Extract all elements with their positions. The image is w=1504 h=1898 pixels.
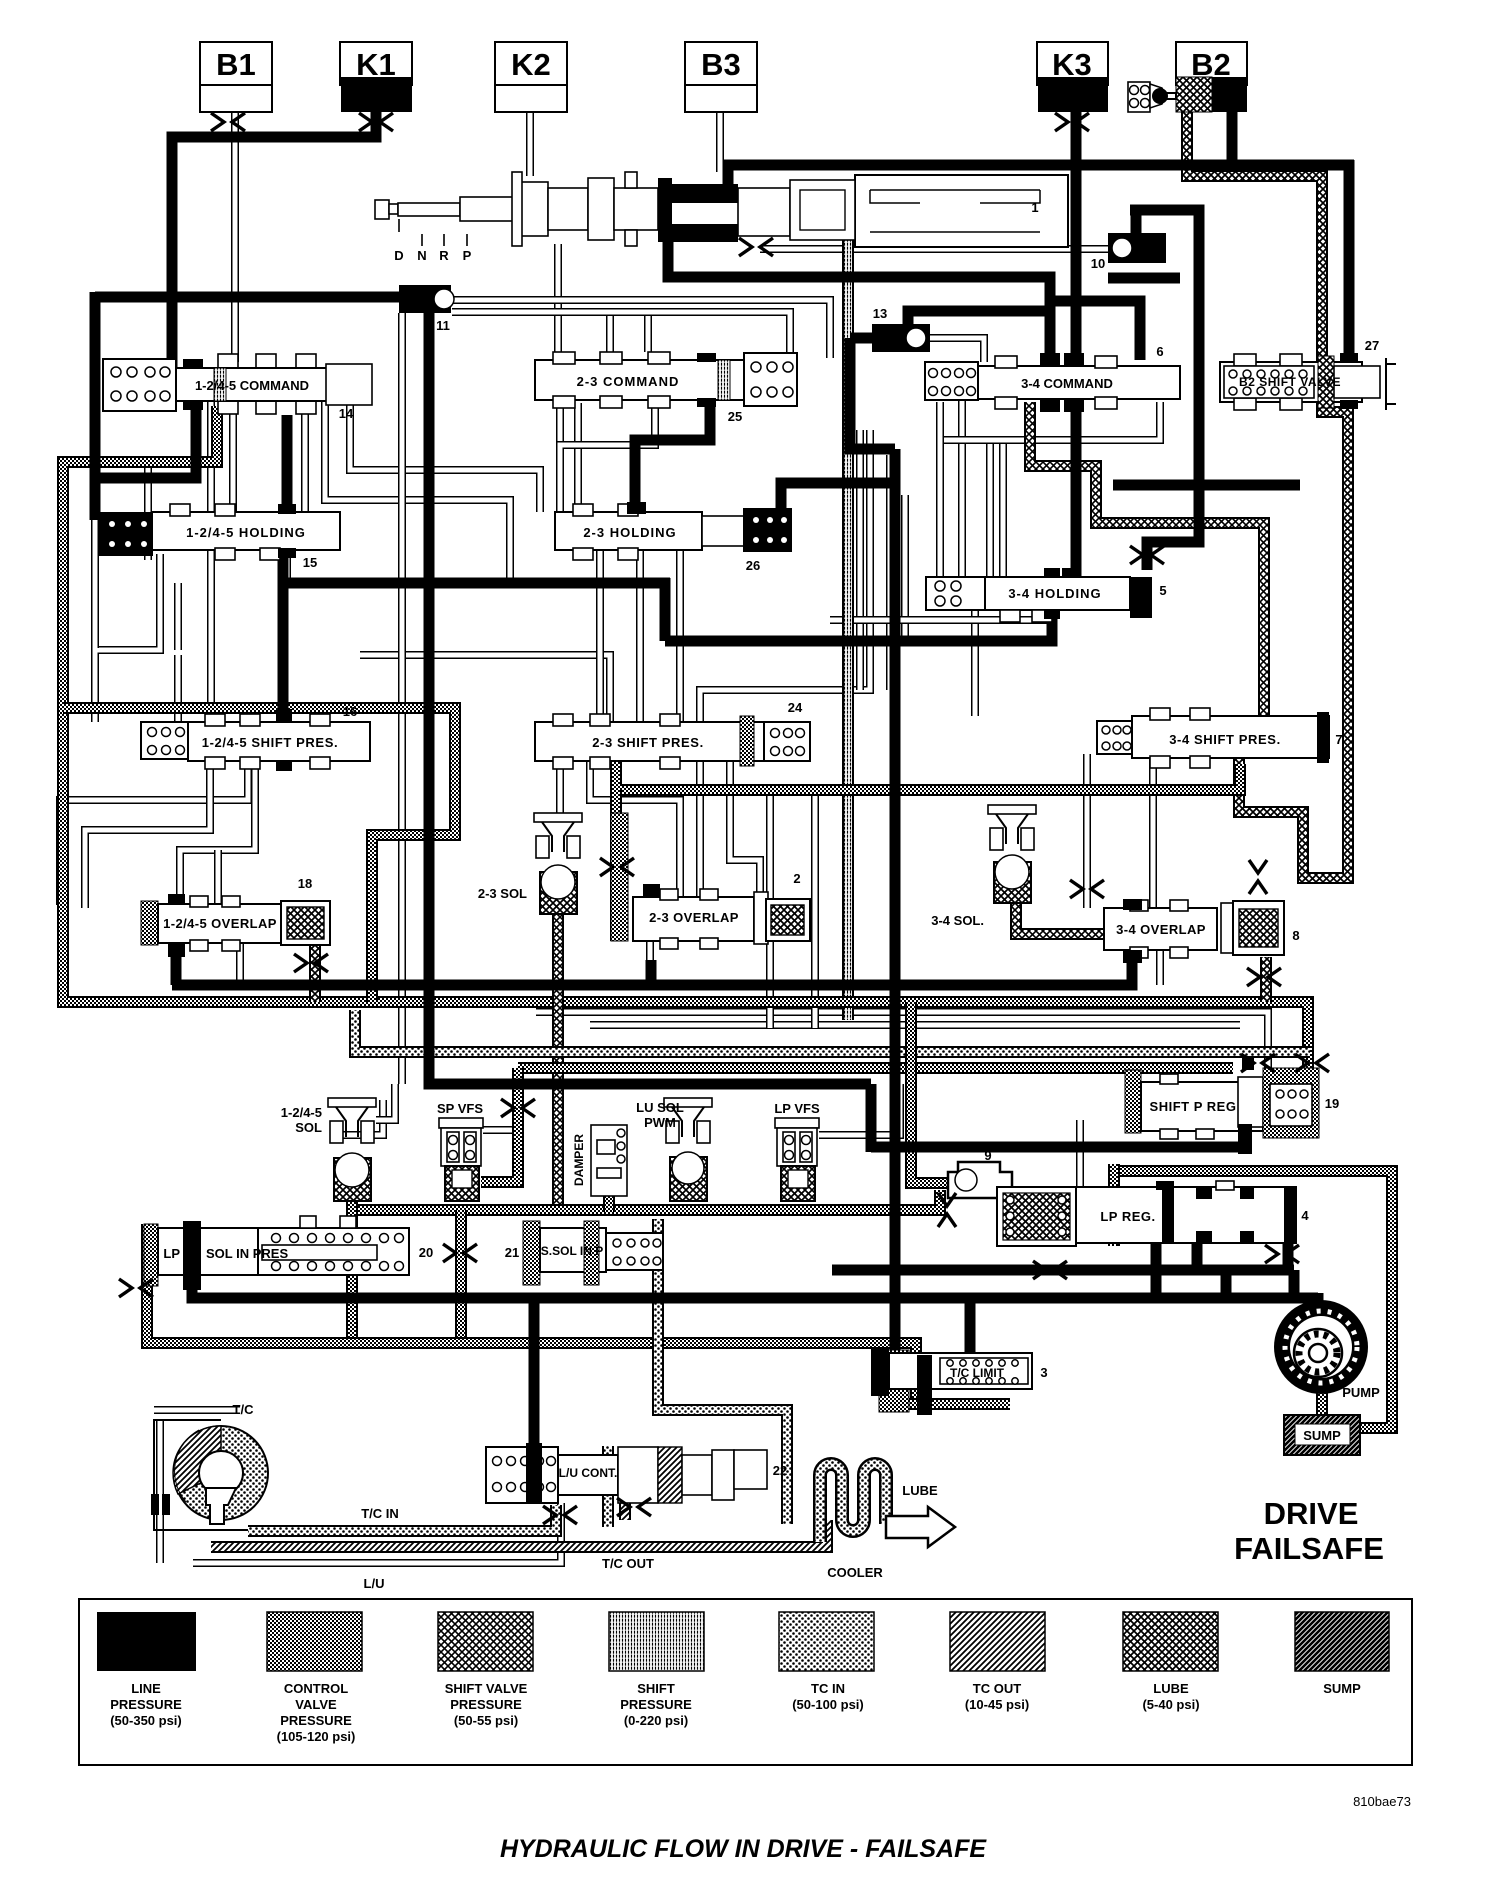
svg-text:810bae73: 810bae73: [1353, 1794, 1411, 1809]
svg-text:(50-350 psi): (50-350 psi): [110, 1713, 182, 1728]
svg-text:R: R: [439, 248, 449, 263]
svg-text:1-2/4-5 OVERLAP: 1-2/4-5 OVERLAP: [163, 916, 277, 931]
svg-text:K2: K2: [511, 47, 551, 82]
svg-text:2: 2: [793, 871, 800, 886]
svg-text:B3: B3: [701, 47, 741, 82]
svg-text:B2 SHIFT VALVE: B2 SHIFT VALVE: [1239, 375, 1341, 389]
svg-text:1-2/4-5: 1-2/4-5: [281, 1105, 322, 1120]
svg-text:DRIVE: DRIVE: [1264, 1496, 1359, 1531]
svg-text:N: N: [417, 248, 426, 263]
svg-text:9: 9: [984, 1148, 991, 1163]
svg-text:3-4 SHIFT PRES.: 3-4 SHIFT PRES.: [1169, 732, 1281, 747]
svg-text:3-4 COMMAND: 3-4 COMMAND: [1021, 376, 1113, 391]
svg-text:(0-220 psi): (0-220 psi): [624, 1713, 688, 1728]
svg-text:PUMP: PUMP: [1342, 1385, 1380, 1400]
svg-text:2-3 COMMAND: 2-3 COMMAND: [577, 374, 680, 389]
svg-text:DAMPER: DAMPER: [572, 1134, 586, 1186]
svg-text:16: 16: [343, 704, 357, 719]
svg-text:T/C LIMIT: T/C LIMIT: [950, 1366, 1005, 1380]
svg-text:SOL: SOL: [295, 1120, 322, 1135]
svg-text:25: 25: [728, 409, 742, 424]
svg-text:B1: B1: [216, 47, 256, 82]
svg-text:3-4 OVERLAP: 3-4 OVERLAP: [1116, 922, 1206, 937]
svg-text:22: 22: [773, 1463, 787, 1478]
svg-text:LP: LP: [163, 1246, 180, 1261]
svg-text:2-3 SOL: 2-3 SOL: [478, 886, 527, 901]
svg-text:2-3 OVERLAP: 2-3 OVERLAP: [649, 910, 739, 925]
svg-text:4: 4: [1301, 1208, 1309, 1223]
svg-text:3-4 HOLDING: 3-4 HOLDING: [1008, 586, 1101, 601]
svg-text:SP VFS: SP VFS: [437, 1101, 483, 1116]
svg-text:26: 26: [746, 558, 760, 573]
svg-text:SOL IN PRES: SOL IN PRES: [206, 1246, 288, 1261]
svg-text:LP REG.: LP REG.: [1100, 1209, 1155, 1224]
svg-text:27: 27: [1365, 338, 1379, 353]
svg-text:21: 21: [505, 1245, 519, 1260]
svg-text:1: 1: [1031, 200, 1038, 215]
svg-text:HYDRAULIC FLOW IN DRIVE - FAIL: HYDRAULIC FLOW IN DRIVE - FAILSAFE: [500, 1835, 987, 1863]
svg-text:L/U: L/U: [364, 1576, 385, 1591]
svg-text:CONTROL: CONTROL: [284, 1681, 348, 1696]
svg-text:PRESSURE: PRESSURE: [450, 1697, 522, 1712]
svg-text:FAILSAFE: FAILSAFE: [1234, 1531, 1384, 1566]
svg-text:COOLER: COOLER: [827, 1565, 883, 1580]
svg-text:18: 18: [298, 876, 312, 891]
svg-text:PWM: PWM: [644, 1115, 676, 1130]
svg-text:K3: K3: [1052, 47, 1092, 82]
svg-text:15: 15: [303, 555, 317, 570]
svg-text:TC IN: TC IN: [811, 1681, 845, 1696]
svg-text:S.SOL IN P: S.SOL IN P: [541, 1244, 603, 1258]
svg-text:3: 3: [1040, 1365, 1047, 1380]
svg-text:2-3 HOLDING: 2-3 HOLDING: [583, 525, 676, 540]
svg-text:T/C IN: T/C IN: [361, 1506, 399, 1521]
svg-text:1-2/4-5 SHIFT PRES.: 1-2/4-5 SHIFT PRES.: [202, 735, 338, 750]
svg-text:20: 20: [419, 1245, 433, 1260]
svg-text:PRESSURE: PRESSURE: [620, 1697, 692, 1712]
svg-text:8: 8: [1292, 928, 1299, 943]
svg-text:SUMP: SUMP: [1303, 1428, 1341, 1443]
svg-text:VALVE: VALVE: [295, 1697, 337, 1712]
svg-text:11: 11: [436, 318, 450, 333]
svg-text:3-4 SOL.: 3-4 SOL.: [931, 913, 984, 928]
svg-text:L/U CONT.: L/U CONT.: [559, 1466, 618, 1480]
svg-text:7: 7: [1335, 732, 1342, 747]
svg-text:T/C: T/C: [233, 1402, 255, 1417]
svg-text:1-2/4-5 HOLDING: 1-2/4-5 HOLDING: [186, 525, 306, 540]
svg-text:D: D: [394, 248, 403, 263]
svg-text:T/C OUT: T/C OUT: [602, 1556, 654, 1571]
svg-text:SHIFT: SHIFT: [637, 1681, 675, 1696]
svg-text:B2: B2: [1191, 47, 1231, 82]
svg-text:LU SOL: LU SOL: [636, 1100, 684, 1115]
svg-text:10: 10: [1091, 256, 1105, 271]
svg-text:P: P: [463, 248, 472, 263]
svg-text:14: 14: [339, 406, 354, 421]
svg-text:SHIFT VALVE: SHIFT VALVE: [445, 1681, 528, 1696]
svg-text:(5-40 psi): (5-40 psi): [1142, 1697, 1199, 1712]
svg-text:K1: K1: [356, 47, 396, 82]
svg-text:(105-120 psi): (105-120 psi): [277, 1729, 356, 1744]
svg-text:(10-45 psi): (10-45 psi): [965, 1697, 1029, 1712]
svg-text:PRESSURE: PRESSURE: [110, 1697, 182, 1712]
svg-text:5: 5: [1159, 583, 1166, 598]
svg-text:TC OUT: TC OUT: [973, 1681, 1021, 1696]
svg-text:PRESSURE: PRESSURE: [280, 1713, 352, 1728]
svg-text:2-3 SHIFT PRES.: 2-3 SHIFT PRES.: [592, 735, 704, 750]
svg-text:LUBE: LUBE: [902, 1483, 938, 1498]
svg-text:LP VFS: LP VFS: [774, 1101, 820, 1116]
svg-text:(50-55 psi): (50-55 psi): [454, 1713, 518, 1728]
svg-text:LINE: LINE: [131, 1681, 161, 1696]
svg-text:SHIFT P REG: SHIFT P REG: [1150, 1099, 1237, 1114]
svg-text:24: 24: [788, 700, 803, 715]
svg-text:19: 19: [1325, 1096, 1339, 1111]
svg-text:(50-100 psi): (50-100 psi): [792, 1697, 864, 1712]
svg-text:SUMP: SUMP: [1323, 1681, 1361, 1696]
svg-text:LUBE: LUBE: [1153, 1681, 1189, 1696]
svg-text:1-2/4-5 COMMAND: 1-2/4-5 COMMAND: [195, 378, 309, 393]
svg-text:6: 6: [1156, 344, 1163, 359]
svg-text:13: 13: [873, 306, 887, 321]
